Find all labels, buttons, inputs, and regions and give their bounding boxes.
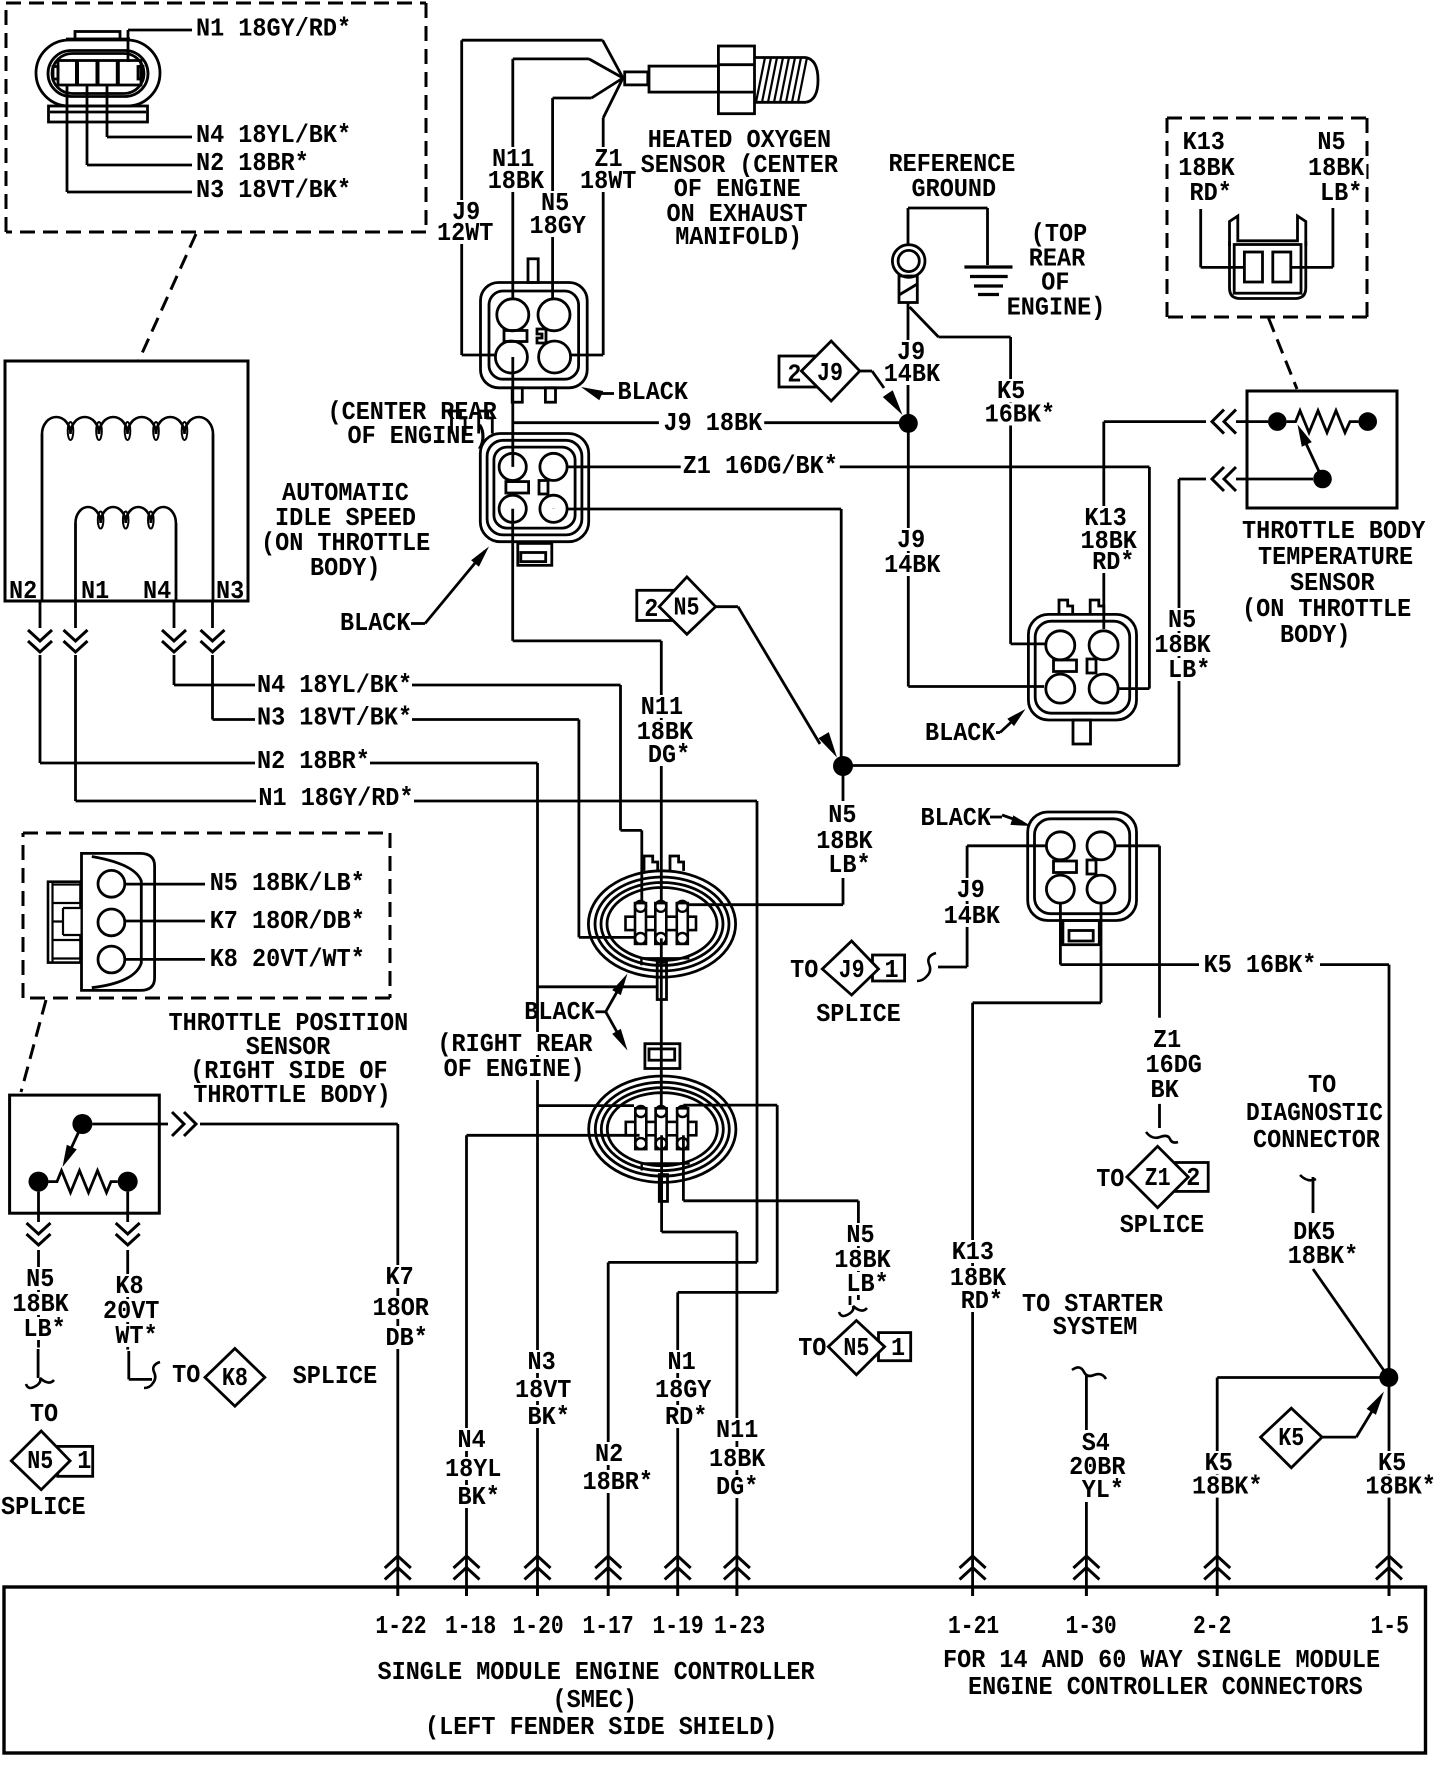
svg-text:FOR 14 AND 60 WAY SINGLE MODUL: FOR 14 AND 60 WAY SINGLE MODULE	[943, 1646, 1380, 1675]
wire N3 run	[412, 720, 641, 938]
svg-text:Z1: Z1	[1145, 1164, 1171, 1193]
svg-text:DIAGNOSTIC: DIAGNOSTIC	[1246, 1099, 1383, 1128]
label Z1 16DG BK	[1144, 1026, 1204, 1105]
label N5 (sensor lead)	[528, 189, 588, 241]
svg-text:K13: K13	[1183, 128, 1225, 157]
label K7 18OR/DB* (TPS)	[208, 907, 367, 936]
label 1-23	[714, 1612, 765, 1641]
wire N2 (coil to label)	[40, 601, 256, 763]
svg-text:LB*: LB*	[23, 1315, 65, 1344]
svg-text:K7: K7	[386, 1263, 414, 1292]
svg-text:2: 2	[1186, 1164, 1200, 1193]
hook DK5	[1300, 1175, 1316, 1213]
label TO (Z1 splice)	[1096, 1165, 1124, 1194]
connector: 3-way (TPS)	[48, 853, 155, 990]
label TO STARTER SYSTEM	[1020, 1290, 1165, 1342]
break symbol N5 sensor wire	[1212, 467, 1236, 491]
label 1-17	[583, 1612, 634, 1641]
wire TPS pin N5	[125, 883, 205, 886]
svg-text:1-23: 1-23	[714, 1612, 765, 1641]
label BLACK (AIS)	[340, 609, 425, 638]
wire N2 run	[370, 763, 656, 1587]
hook J9 splice	[917, 953, 936, 981]
svg-text:SYSTEM: SYSTEM	[1053, 1313, 1138, 1342]
coil N2-N3 (large winding)	[42, 417, 213, 601]
svg-text:N5: N5	[674, 594, 700, 623]
svg-text:ENGINE CONTROLLER CONNECTORS: ENGINE CONTROLLER CONNECTORS	[968, 1673, 1363, 1702]
wire K5 16BK* (terminal to connector)	[910, 307, 1047, 644]
connector: 4-way square (automatic idle speed)	[452, 411, 589, 565]
svg-text:(LEFT FENDER SIDE SHIELD): (LEFT FENDER SIDE SHIELD)	[425, 1713, 778, 1742]
svg-text:SPLICE: SPLICE	[816, 1000, 901, 1029]
svg-text:18BK*: 18BK*	[1192, 1473, 1263, 1502]
ground symbol	[964, 267, 1012, 295]
wire K7 (TPS wiper)	[92, 1124, 397, 1587]
svg-text:DG*: DG*	[716, 1473, 758, 1502]
svg-text:LB*: LB*	[846, 1270, 888, 1299]
svg-text:YL*: YL*	[1082, 1476, 1124, 1505]
label K5 16BK* (lower wire)	[1202, 951, 1319, 980]
label N4 18YL/BK* (wire)	[255, 671, 414, 700]
label 1-20	[513, 1612, 564, 1641]
break symbol at SMEC x=537.5	[525, 1556, 551, 1596]
svg-text:WT*: WT*	[115, 1322, 157, 1351]
connector: 3-way oval (injector, lower)	[589, 1044, 736, 1202]
label N2 18BR* (wire)	[255, 747, 372, 776]
junction dot J9	[899, 414, 918, 433]
svg-text:18OR: 18OR	[373, 1294, 430, 1323]
dashed leader to coil box	[139, 234, 196, 360]
svg-text:DG*: DG*	[648, 741, 690, 770]
dashed leader to temp sensor box	[1269, 318, 1298, 389]
label BLACK (oxy connector)	[598, 378, 689, 407]
label (TOP REAR OF ENGINE)	[1005, 220, 1108, 323]
resistor (temp sensor)	[1268, 411, 1377, 489]
break symbol at SMEC x=608.2	[595, 1556, 621, 1596]
label N5 18BK LB* (in box)	[1306, 128, 1366, 208]
svg-text:TO: TO	[798, 1334, 826, 1363]
label N3 18VT/BK*	[194, 176, 353, 205]
arrowhead BLACK oxy	[581, 387, 603, 400]
label 1-18	[445, 1612, 496, 1641]
svg-text:1-18: 1-18	[445, 1612, 496, 1641]
label N11 18BK DG* (mid)	[635, 693, 695, 770]
connector: 2-way (temp sensor)	[1230, 216, 1306, 299]
label K8 20VT WT* (TPS wire)	[101, 1272, 161, 1351]
break symbols below TPS	[24, 1222, 142, 1250]
hook N5 splice (mid)	[839, 1296, 867, 1316]
dashed leader to TPS box	[21, 1000, 46, 1092]
wire N5 (TPS to splice)	[37, 1192, 40, 1348]
svg-text:LB*: LB*	[828, 851, 870, 880]
svg-text:SENSOR: SENSOR	[1290, 569, 1375, 598]
wire N5 (junction to upper oval)	[688, 766, 843, 905]
svg-text:18BR*: 18BR*	[583, 1468, 654, 1497]
splice symbol 2-N5	[637, 577, 738, 634]
label N1 18GY/RD*	[194, 15, 353, 44]
label N11 18BK DG* (SMEC)	[707, 1416, 767, 1502]
dashed detail box (injector harness connector)	[6, 3, 426, 232]
svg-text:1: 1	[891, 1334, 905, 1363]
label 1-22	[375, 1612, 426, 1641]
svg-text:K13: K13	[952, 1238, 994, 1267]
connector: 4-way oval (top-left)	[36, 32, 160, 123]
label SPLICE (J9)	[816, 1000, 901, 1029]
svg-text:N1 18GY/RD*: N1 18GY/RD*	[196, 15, 351, 44]
svg-text:18WT: 18WT	[580, 167, 636, 196]
svg-text:2-2: 2-2	[1193, 1612, 1231, 1641]
svg-text:18GY: 18GY	[655, 1376, 712, 1405]
label THROTTLE POSITION SENSOR (RIGHT SIDE OF THROTTLE BODY)	[167, 1009, 411, 1110]
connector: 4-way square (K13/K5, rear)	[1028, 600, 1136, 744]
label Z1 (sensor lead)	[578, 145, 638, 196]
label K13 18BK RD* (mid)	[1079, 504, 1139, 577]
svg-text:J9: J9	[817, 359, 843, 388]
label DK5 18BK*	[1286, 1218, 1361, 1271]
svg-text:(ON THROTTLE: (ON THROTTLE	[1242, 595, 1411, 624]
label N1 18GY/RD* (wire)	[256, 784, 415, 813]
label SPLICE (K8)	[293, 1362, 378, 1391]
label N4 (coil)	[143, 577, 171, 606]
svg-text:K5 16BK*: K5 16BK*	[1204, 951, 1317, 980]
wiper arrow (temp sensor)	[1298, 425, 1323, 480]
label N5 18BK LB* (to splice)	[832, 1221, 892, 1299]
svg-text:DB*: DB*	[386, 1324, 428, 1353]
svg-text:1-19: 1-19	[653, 1612, 704, 1641]
label K8 20VT/WT* (TPS)	[208, 945, 367, 974]
wire J9 18BK	[513, 357, 899, 467]
break symbol at SMEC x=972.6	[960, 1556, 986, 1596]
label (RIGHT REAR OF ENGINE)	[435, 1030, 594, 1084]
svg-text:RD*: RD*	[1092, 548, 1134, 577]
break symbol K7 wire	[168, 1109, 200, 1139]
splice symbol J9-1	[822, 941, 904, 995]
label 1-21	[948, 1612, 999, 1641]
label THROTTLE BODY TEMPERATURE SENSOR (ON THROTTLE BODY)	[1240, 517, 1427, 650]
svg-text:K5: K5	[1278, 1424, 1304, 1453]
label TO (N5 splice)	[30, 1400, 58, 1429]
svg-text:1: 1	[77, 1447, 91, 1476]
wire N4 pin lead	[107, 85, 192, 137]
splice symbol Z1-2	[1127, 1146, 1208, 1207]
break symbols below coil box	[26, 628, 227, 655]
arrow K5 to junction	[1322, 1392, 1384, 1438]
label S4 20BR YL*	[1067, 1429, 1127, 1505]
wire N5 (in box)	[1291, 208, 1333, 267]
label FOR 14 AND 60 WAY SINGLE MODULE ENGINE CONTROLLER CONNECTORS	[943, 1646, 1380, 1702]
label J9 14BK (upper)	[882, 338, 942, 389]
svg-text:N5: N5	[27, 1447, 53, 1476]
break symbol K13 wire	[1212, 410, 1236, 434]
svg-text:2: 2	[644, 595, 658, 624]
svg-text:TO: TO	[1096, 1165, 1124, 1194]
wire N1 (coil to label)	[76, 601, 257, 801]
svg-text:SINGLE MODULE ENGINE CONTROLLE: SINGLE MODULE ENGINE CONTROLLER	[378, 1658, 816, 1687]
break symbol at SMEC x=1217.2	[1204, 1556, 1230, 1596]
wire K5 branch to 2-2	[1217, 1378, 1389, 1588]
wire Z1 16DG/BK*	[567, 467, 1149, 689]
break symbol at SMEC x=1389	[1376, 1556, 1402, 1596]
connector: 3-way oval (injector, upper)	[588, 856, 735, 1000]
SMEC box	[4, 1587, 1426, 1753]
label N2 (coil)	[9, 577, 37, 606]
label K13 18BK RD* (lower)	[948, 1238, 1008, 1316]
wire J9 12WT	[462, 40, 623, 355]
label N4 18YL/BK*	[194, 121, 353, 150]
svg-text:CONNECTOR: CONNECTOR	[1253, 1126, 1381, 1155]
wire N1 pin lead	[128, 30, 192, 62]
coil N1-N4 (small winding)	[76, 507, 177, 601]
svg-text:N4 18YL/BK*: N4 18YL/BK*	[257, 671, 412, 700]
break symbol at SMEC x=397.8	[385, 1556, 411, 1596]
svg-text:18BK: 18BK	[709, 1445, 766, 1474]
svg-text:N5 18BK/LB*: N5 18BK/LB*	[210, 869, 365, 898]
label K13 18BK RD* (in box)	[1176, 128, 1236, 208]
svg-text:BLACK: BLACK	[921, 804, 992, 833]
label SPLICE (Z1)	[1120, 1211, 1205, 1240]
wire N3 (coil to label)	[213, 601, 257, 720]
svg-text:K7 18OR/DB*: K7 18OR/DB*	[210, 907, 365, 936]
label REFERENCE GROUND	[887, 150, 1018, 204]
splice symbol K5 (diamond)	[1261, 1408, 1322, 1468]
label 1-19	[653, 1612, 704, 1641]
svg-text:18VT: 18VT	[515, 1376, 571, 1405]
label BLACK (connector 4)	[921, 804, 1003, 833]
wiper arrow (TPS)	[63, 1124, 83, 1167]
svg-text:18BK*: 18BK*	[1365, 1473, 1436, 1502]
wire N11 lower (oval to SMEC)	[662, 1135, 737, 1587]
label SINGLE MODULE ENGINE CONTROLLER (SMEC) (LEFT FENDER SIDE SHIELD)	[378, 1658, 816, 1742]
wire N11 to lower oval	[660, 938, 663, 1105]
wire reference ground loop	[908, 208, 988, 265]
svg-text:BLACK: BLACK	[524, 998, 595, 1027]
svg-text:14BK: 14BK	[944, 902, 1001, 931]
svg-text:BLACK: BLACK	[618, 378, 689, 407]
label N5 18BK/LB* (TPS)	[208, 869, 367, 898]
label N3 (coil)	[216, 577, 244, 606]
label J9 14BK (lower)	[942, 876, 1002, 931]
svg-text:BK: BK	[1151, 1076, 1180, 1105]
wire N1 run	[414, 801, 757, 1587]
svg-text:RD*: RD*	[1190, 179, 1232, 208]
svg-text:N5: N5	[1317, 128, 1345, 157]
svg-text:N2 18BR*: N2 18BR*	[257, 747, 370, 776]
label K7 18OR DB* (wire)	[371, 1263, 431, 1353]
label N1 18GY RD* (SMEC)	[653, 1348, 713, 1432]
label N11 (sensor lead)	[486, 145, 546, 196]
wire to oxy connector lower pins	[462, 354, 604, 357]
splice symbol 2-J9	[779, 341, 872, 401]
svg-text:J9 18BK: J9 18BK	[664, 409, 763, 438]
svg-text:SPLICE: SPLICE	[1120, 1211, 1205, 1240]
svg-text:N4: N4	[143, 577, 171, 606]
svg-text:16BK*: 16BK*	[985, 401, 1056, 430]
label J9 (sensor lead)	[435, 198, 495, 248]
svg-text:BK*: BK*	[458, 1483, 500, 1512]
label AUTOMATIC IDLE SPEED (ON THROTTLE BODY)	[259, 479, 432, 583]
svg-text:TO: TO	[30, 1400, 58, 1429]
wire J9 14BK (junction to oxy conn)	[908, 423, 1044, 686]
wire N5 (sensor wiper to junction)	[843, 479, 1313, 766]
wire TPS pin K7	[125, 920, 205, 923]
svg-text:OF ENGINE): OF ENGINE)	[444, 1055, 585, 1084]
svg-text:N5: N5	[828, 801, 856, 830]
wire DK5 to junction	[1313, 1269, 1389, 1378]
arrow BLACK to conn4	[1002, 815, 1031, 826]
svg-text:THROTTLE BODY): THROTTLE BODY)	[193, 1081, 390, 1110]
hook N5 wire end	[26, 1349, 54, 1388]
wire J9 14BK (terminal to junction)	[907, 303, 910, 424]
wire N1 lower (oval to SMEC)	[678, 1105, 778, 1587]
injector coil box	[5, 361, 248, 601]
arrow BLACK to upper oval	[606, 974, 628, 1012]
break symbol at SMEC x=1086.4	[1073, 1556, 1099, 1596]
svg-text:N3 18VT/BK*: N3 18VT/BK*	[196, 176, 351, 205]
svg-text:1-30: 1-30	[1066, 1612, 1117, 1641]
label TO DIAGNOSTIC CONNECTOR	[1244, 1071, 1385, 1155]
svg-text:1-5: 1-5	[1371, 1612, 1409, 1641]
svg-text:N4 18YL/BK*: N4 18YL/BK*	[196, 121, 351, 150]
svg-text:BLACK: BLACK	[925, 719, 996, 748]
junction dot K5	[1379, 1368, 1398, 1387]
wire N5 18GY	[553, 78, 623, 300]
junction dot N5	[833, 756, 853, 776]
label 2-2	[1193, 1612, 1231, 1641]
svg-text:14BK: 14BK	[884, 551, 941, 580]
wire Z1 18WT	[603, 78, 623, 355]
label TO (N5 mid splice)	[798, 1334, 826, 1363]
wire N2 pin lead	[87, 85, 192, 165]
svg-text:TO: TO	[790, 956, 818, 985]
splice symbol N5-1 (mid)	[828, 1321, 910, 1375]
splice symbol N5-1 (left)	[11, 1431, 92, 1490]
svg-text:N3 18VT/BK*: N3 18VT/BK*	[257, 704, 412, 733]
wire K13 (in box)	[1201, 209, 1245, 267]
svg-text:(SMEC): (SMEC)	[553, 1686, 638, 1715]
svg-text:RD*: RD*	[961, 1287, 1003, 1316]
wire N4 (coil to label)	[174, 601, 256, 685]
heated oxygen sensor body	[625, 46, 818, 114]
svg-text:18YL: 18YL	[445, 1455, 501, 1484]
svg-text:BK*: BK*	[528, 1403, 570, 1432]
svg-text:BLACK: BLACK	[340, 609, 411, 638]
svg-text:2: 2	[787, 361, 801, 390]
splice symbol K8	[205, 1349, 265, 1407]
label K5 18BK* (2-2)	[1190, 1449, 1265, 1502]
svg-text:1-21: 1-21	[948, 1612, 999, 1641]
svg-text:N2: N2	[9, 577, 37, 606]
svg-text:N2 18BR*: N2 18BR*	[196, 149, 309, 178]
svg-text:THROTTLE BODY: THROTTLE BODY	[1242, 517, 1426, 546]
svg-text:18BK*: 18BK*	[1288, 1242, 1359, 1271]
svg-text:BODY): BODY)	[1280, 621, 1351, 650]
label N1 (coil)	[81, 577, 109, 606]
break symbol at SMEC x=677.7	[665, 1556, 691, 1596]
svg-text:TO: TO	[1308, 1071, 1336, 1100]
svg-text:1-17: 1-17	[583, 1612, 634, 1641]
connector: 4-way square (J9/Z1, right)	[1028, 812, 1137, 945]
break symbol at SMEC x=466.5	[454, 1556, 480, 1596]
label 1-5	[1371, 1612, 1409, 1641]
label K5 16BK* (upper)	[983, 377, 1058, 430]
wire J9 (conn4 to splice)	[938, 846, 1046, 967]
label J9 18BK	[662, 409, 765, 438]
svg-text:Z1 16DG/BK*: Z1 16DG/BK*	[683, 452, 838, 481]
label (CENTER REAR OF ENGINE)	[328, 398, 498, 451]
label N3 18VT BK* (SMEC)	[513, 1348, 573, 1432]
label Z1 16DG/BK*	[681, 452, 840, 481]
wire N5 lower (oval to splice)	[683, 1135, 858, 1300]
throttle position sensor box	[10, 1095, 160, 1213]
arrow BLACK to lower oval	[606, 1012, 628, 1051]
svg-text:RD*: RD*	[665, 1403, 707, 1432]
label BLACK (oval connectors)	[524, 998, 605, 1027]
svg-text:N1 18GY/RD*: N1 18GY/RD*	[258, 784, 413, 813]
label HEATED OXYGEN SENSOR (CENTER OF ENGINE ON EXHAUST MANIFOLD)	[639, 126, 840, 252]
svg-text:N1: N1	[668, 1348, 696, 1377]
svg-text:1: 1	[885, 956, 899, 985]
wire N11 18BK (sensor)	[513, 59, 623, 300]
throttle body temperature sensor box	[1247, 391, 1397, 508]
wire K8 (TPS to splice)	[126, 1192, 129, 1350]
arrow 2-J9 to junction	[872, 371, 903, 415]
label N4 18YL BK* (SMEC)	[443, 1426, 503, 1512]
svg-text:18GY: 18GY	[530, 212, 587, 241]
label N2 18BR*	[194, 149, 311, 178]
svg-text:SPLICE: SPLICE	[1, 1493, 86, 1522]
svg-text:14BK: 14BK	[884, 360, 941, 389]
ring terminal (reference ground)	[892, 245, 925, 303]
wire N4 lower (oval to SMEC)	[467, 1135, 640, 1587]
label TO (K8 splice)	[172, 1361, 200, 1390]
wire K5 16BK* (conn4 to SMEC 1-5)	[1060, 903, 1389, 1587]
label N5 18BK LB* (sensor wire)	[1152, 606, 1212, 685]
svg-text:J9: J9	[839, 956, 865, 985]
connector: 4-way square (oxygen sensor, center rear of engine)	[481, 259, 588, 402]
svg-text:N2: N2	[595, 1440, 623, 1469]
svg-text:N3: N3	[216, 577, 244, 606]
hook Z1 splice	[1146, 1132, 1178, 1143]
svg-text:N11: N11	[716, 1416, 758, 1445]
svg-text:LB*: LB*	[1168, 656, 1210, 685]
wire K13 18BK RD* (sensor to connector)	[1104, 422, 1268, 629]
svg-text:1-20: 1-20	[513, 1612, 564, 1641]
svg-text:1-22: 1-22	[375, 1612, 426, 1641]
label TO (J9 splice)	[790, 956, 818, 985]
svg-text:K8: K8	[222, 1364, 248, 1393]
wire S4 to SMEC	[1085, 1502, 1088, 1587]
wire N4 run	[412, 685, 642, 903]
label N5 18BK LB* (TPS wire)	[10, 1265, 70, 1344]
dashed detail box (throttle body temp sensor connector)	[1167, 118, 1367, 317]
label 1-30	[1066, 1612, 1117, 1641]
label SPLICE (left)	[1, 1493, 86, 1522]
break symbol at SMEC x=736.9	[724, 1556, 750, 1596]
svg-text:SPLICE: SPLICE	[293, 1362, 378, 1391]
wire K13 (conn4 to SMEC 1-21)	[973, 903, 1101, 1587]
svg-text:N5: N5	[843, 1334, 869, 1363]
svg-text:ENGINE): ENGINE)	[1007, 294, 1106, 323]
svg-text:OF ENGINE): OF ENGINE)	[348, 422, 489, 451]
wire Z1 (conn4 to splice)	[1115, 846, 1160, 1128]
hook K8 wire end	[129, 1351, 160, 1388]
svg-text:TEMPERATURE: TEMPERATURE	[1258, 543, 1413, 572]
label J9 14BK (mid)	[882, 526, 942, 580]
svg-text:18BK: 18BK	[488, 167, 545, 196]
svg-text:J9: J9	[957, 876, 985, 905]
wire TPS pin K8	[125, 958, 205, 961]
arrow BLACK to AIS	[425, 547, 489, 624]
